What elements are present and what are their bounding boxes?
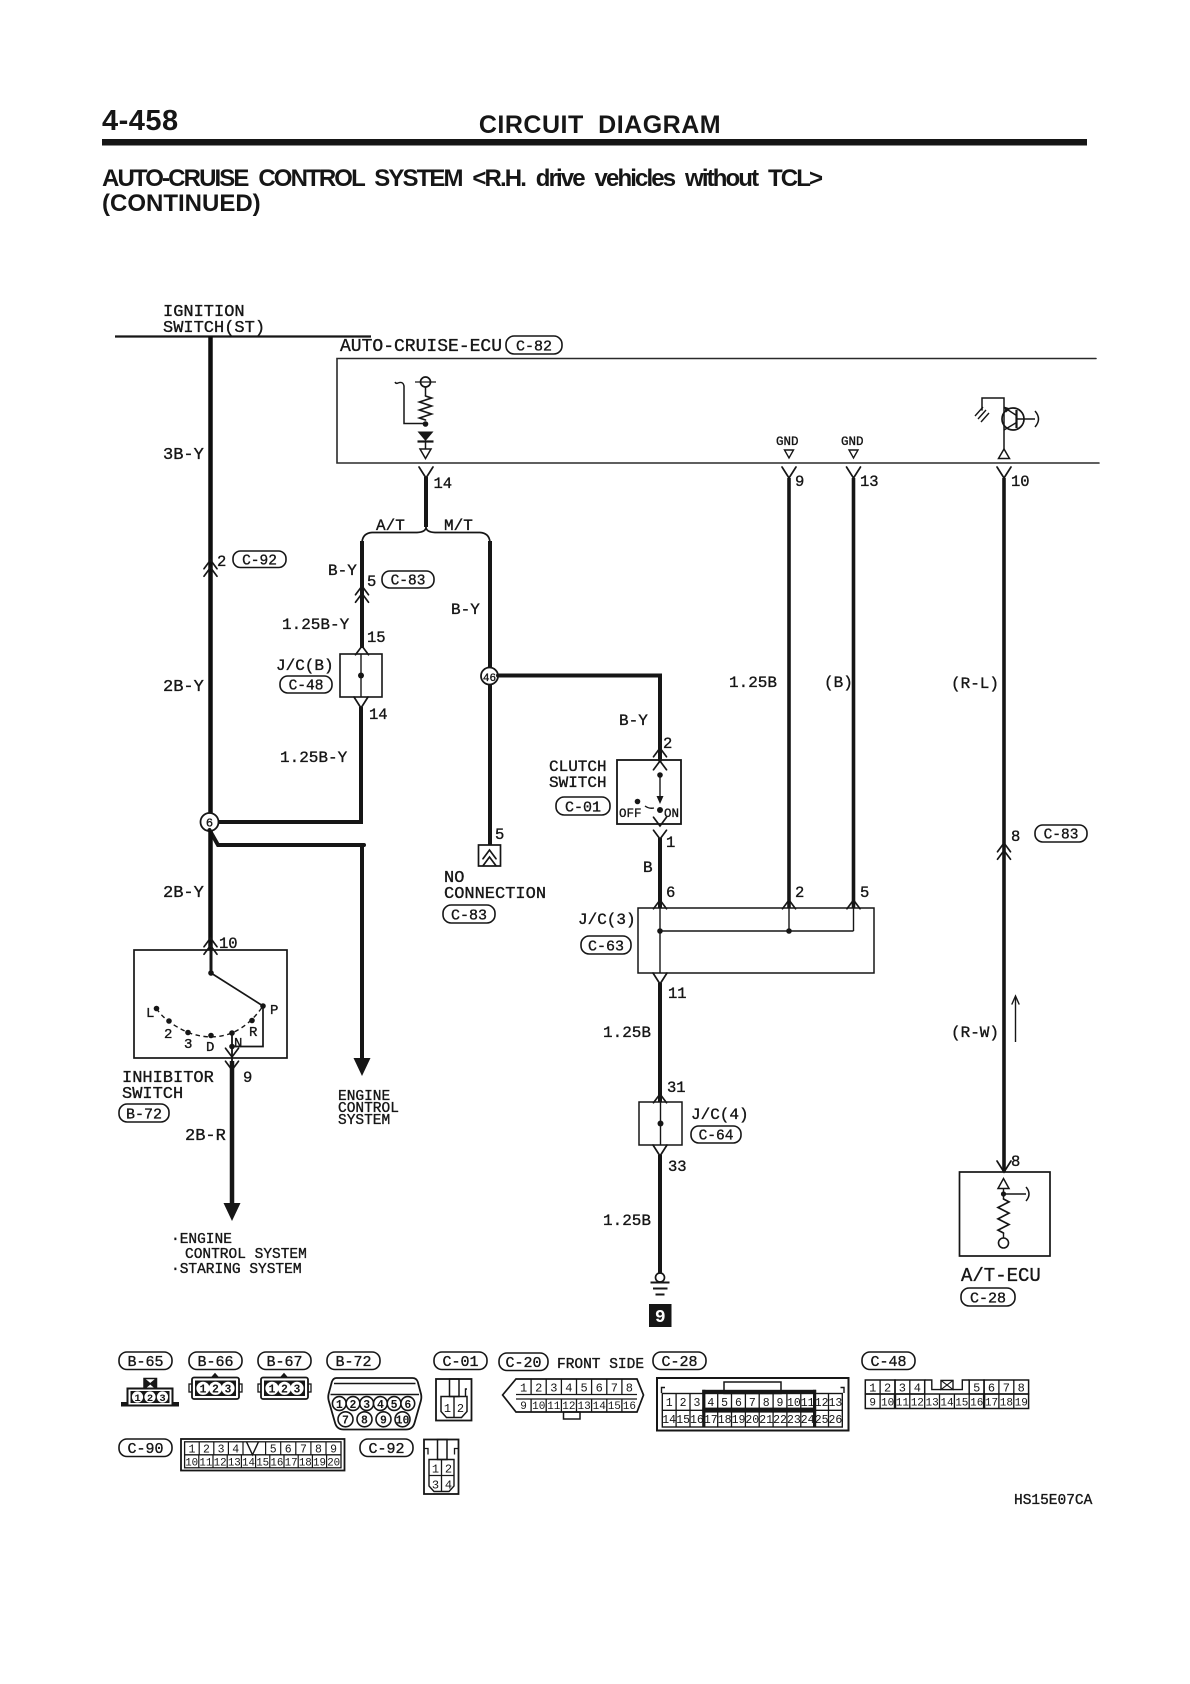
- svg-text:C-83: C-83: [1044, 828, 1079, 844]
- svg-text:8: 8: [361, 1415, 368, 1428]
- svg-text:18: 18: [1000, 1398, 1013, 1410]
- svg-text:B-72: B-72: [126, 1106, 162, 1123]
- svg-text:19: 19: [313, 1457, 326, 1469]
- svg-text:5: 5: [721, 1397, 728, 1410]
- svg-text:C-90: C-90: [127, 1441, 163, 1458]
- svg-text:8: 8: [763, 1397, 770, 1410]
- node 46 circle: [481, 668, 498, 685]
- connector ref C-63 capsule: [581, 936, 631, 954]
- J/C(B) exit pin 14 connector Y: [354, 697, 368, 708]
- transistor Q circle: [1002, 408, 1024, 430]
- engine control system branch wire: [360, 843, 364, 1060]
- svg-text:14: 14: [369, 706, 388, 724]
- connector ref C-48 capsule: [280, 676, 332, 693]
- wire B-Y M/T branch: [488, 541, 492, 668]
- svg-text:6: 6: [988, 1381, 995, 1395]
- connector ref B-66 capsule: [189, 1352, 242, 1370]
- svg-text:2: 2: [795, 884, 804, 902]
- GND pin triangle right: [849, 450, 858, 458]
- svg-text:B-66: B-66: [197, 1354, 233, 1371]
- clutch switch OFF contact dot: [635, 799, 641, 805]
- wire below node 46 to no-connection: [488, 684, 492, 845]
- svg-text:A/T-ECU: A/T-ECU: [961, 1265, 1041, 1287]
- svg-text:19: 19: [1015, 1398, 1028, 1410]
- wire B-Y A/T branch upper: [360, 541, 364, 600]
- svg-text:3: 3: [294, 1384, 301, 1397]
- svg-text:C-01: C-01: [442, 1354, 478, 1371]
- svg-text:C-82: C-82: [516, 338, 552, 355]
- svg-text:A/T: A/T: [376, 517, 405, 535]
- svg-text:2: 2: [147, 1393, 153, 1405]
- connector ref C-20 capsule: [499, 1353, 548, 1371]
- inhibitor switch wiper arm: [211, 973, 263, 1006]
- svg-text:18: 18: [299, 1457, 312, 1469]
- connector ref C-83 capsule right: [1035, 825, 1087, 842]
- svg-text:10: 10: [396, 1415, 410, 1428]
- svg-text:15: 15: [955, 1398, 968, 1410]
- svg-text:CONTROL SYSTEM: CONTROL SYSTEM: [185, 1247, 307, 1263]
- svg-text:1: 1: [432, 1463, 439, 1477]
- svg-text:15: 15: [676, 1414, 690, 1427]
- svg-text:20: 20: [745, 1414, 759, 1427]
- svg-text:10: 10: [532, 1401, 545, 1413]
- svg-text:7: 7: [300, 1443, 307, 1456]
- svg-text:1.25B: 1.25B: [603, 1024, 651, 1042]
- svg-text:3B-Y: 3B-Y: [163, 446, 204, 465]
- body ground symbol: [656, 1273, 665, 1282]
- svg-text:12: 12: [562, 1401, 575, 1413]
- svg-text:10: 10: [1011, 473, 1030, 491]
- svg-text:7: 7: [611, 1382, 618, 1396]
- svg-text:13: 13: [828, 1397, 842, 1410]
- junction block J/C(B) entry chevron: [356, 646, 369, 655]
- connector ref C-01 capsule bottom: [434, 1352, 487, 1370]
- svg-text:11: 11: [199, 1457, 212, 1469]
- svg-text:7: 7: [1003, 1381, 1010, 1395]
- svg-text:AUTO-CRUISE-ECU: AUTO-CRUISE-ECU: [340, 337, 502, 357]
- svg-text:11: 11: [896, 1398, 910, 1410]
- svg-text:(R-W): (R-W): [951, 1024, 999, 1042]
- clutch switch moving contact arrow: [657, 796, 664, 804]
- svg-text:23: 23: [787, 1414, 801, 1427]
- J/C(4) entry chevron: [654, 1094, 667, 1103]
- inhibitor switch contact arc dashed: [157, 1006, 264, 1037]
- connector C-20 drawing: [503, 1379, 644, 1419]
- svg-text:14: 14: [242, 1457, 255, 1469]
- svg-text:B-65: B-65: [127, 1354, 163, 1371]
- svg-text:5: 5: [973, 1381, 980, 1395]
- svg-text:16: 16: [270, 1457, 283, 1469]
- svg-text:C-28: C-28: [970, 1290, 1006, 1307]
- svg-text:2: 2: [663, 735, 672, 753]
- wire 3B-Y ignition switch vertical: [208, 336, 213, 822]
- svg-text:14: 14: [662, 1414, 676, 1427]
- clutch switch throw dash: [645, 806, 654, 808]
- wire (B) ground pin 13: [852, 478, 856, 908]
- svg-text:2B-Y: 2B-Y: [163, 678, 204, 697]
- svg-text:SWITCH(ST): SWITCH(ST): [163, 319, 265, 338]
- inhibitor exit chevrons: [226, 1048, 239, 1057]
- connector C-92 drawing: [424, 1440, 459, 1495]
- inhibitor switch common dot: [208, 970, 214, 976]
- inhibitor contact dot N: [229, 1030, 235, 1036]
- connector C-48 drawing: [865, 1380, 1028, 1410]
- J/C(3) exit pin 11 connector Y: [653, 973, 667, 984]
- svg-text:P: P: [270, 1003, 278, 1019]
- svg-text:1: 1: [444, 1402, 451, 1416]
- clutch switch internal wire: [659, 775, 661, 797]
- connector C-90 drawing: [181, 1439, 345, 1471]
- svg-text:16: 16: [970, 1398, 983, 1410]
- wire B clutch to J/C(3): [658, 838, 662, 908]
- svg-text:2: 2: [217, 553, 226, 571]
- svg-text:8: 8: [626, 1382, 633, 1396]
- svg-text:10: 10: [881, 1398, 894, 1410]
- ground reference 9 black box: [649, 1304, 672, 1327]
- svg-text:2: 2: [212, 1384, 219, 1397]
- connector C-01 drawing: [436, 1379, 472, 1421]
- J/C(3) junction dots: [657, 928, 663, 934]
- svg-text:1.25B: 1.25B: [729, 674, 777, 692]
- junction block J/C(B) C-48 box: [340, 654, 382, 697]
- connector pass-through double chevron right wire: [998, 843, 1011, 852]
- svg-text:2: 2: [445, 1463, 452, 1477]
- svg-text:11: 11: [668, 985, 687, 1003]
- svg-text:17: 17: [285, 1457, 298, 1469]
- ECU pin 10 male terminal triangle: [999, 449, 1010, 459]
- svg-text:10: 10: [787, 1397, 801, 1410]
- svg-text:6: 6: [596, 1382, 603, 1396]
- J/C(4) internal wire: [660, 1102, 662, 1145]
- J/C(3) internal vertical wire pin6: [659, 908, 661, 973]
- ECU internal wire: [425, 387, 427, 396]
- svg-text:1: 1: [869, 1381, 876, 1395]
- svg-text:1: 1: [336, 1399, 343, 1412]
- svg-text:12: 12: [815, 1397, 829, 1410]
- svg-text:2: 2: [535, 1382, 542, 1396]
- connector ref C-83 capsule no-connection: [443, 905, 495, 923]
- svg-text:L: L: [146, 1006, 154, 1022]
- svg-text:1: 1: [269, 1384, 276, 1397]
- clutch switch entry chevrons: [654, 748, 667, 757]
- transistor emitter diagonal: [1004, 423, 1017, 431]
- node 6 circle: [201, 813, 219, 831]
- svg-text:14: 14: [593, 1401, 607, 1413]
- A/T-ECU internal resistor: [998, 1199, 1009, 1233]
- header rule: [102, 139, 1087, 146]
- svg-text:15: 15: [256, 1457, 269, 1469]
- svg-text:(CONTINUED): (CONTINUED): [102, 190, 261, 217]
- svg-text:3: 3: [550, 1382, 557, 1396]
- svg-text:13: 13: [925, 1398, 938, 1410]
- svg-text:3: 3: [899, 1381, 906, 1395]
- svg-text:17: 17: [704, 1414, 718, 1427]
- svg-text:C-83: C-83: [391, 574, 426, 590]
- svg-text:(B): (B): [824, 674, 853, 692]
- svg-text:22: 22: [773, 1414, 787, 1427]
- svg-text:5: 5: [495, 826, 504, 844]
- J/C(4) internal junction dot: [658, 1121, 664, 1127]
- connector ref C-90 capsule: [119, 1439, 172, 1457]
- svg-text:3: 3: [432, 1479, 439, 1493]
- svg-text:18: 18: [718, 1414, 732, 1427]
- svg-text:5: 5: [860, 884, 869, 902]
- svg-text:B-72: B-72: [335, 1354, 371, 1371]
- inhibitor contact dot 3: [185, 1030, 191, 1036]
- A/T M/T split brace: [362, 527, 490, 542]
- ECU internal diode: [418, 432, 434, 442]
- svg-text:CIRCUIT DIAGRAM: CIRCUIT DIAGRAM: [479, 111, 721, 139]
- svg-text:26: 26: [828, 1414, 842, 1427]
- svg-text:5: 5: [270, 1443, 277, 1456]
- clutch switch ON contact dot: [657, 807, 663, 813]
- connector ref C-48 capsule bottom: [862, 1352, 915, 1370]
- svg-text:4: 4: [707, 1397, 714, 1410]
- svg-text:8: 8: [1011, 828, 1020, 846]
- svg-text:9: 9: [655, 1308, 666, 1328]
- svg-text:3: 3: [225, 1384, 232, 1397]
- svg-text:14: 14: [434, 475, 453, 493]
- svg-text:11: 11: [547, 1401, 561, 1413]
- ECU pin 14 male terminal triangle: [420, 449, 431, 459]
- svg-text:8: 8: [1011, 1153, 1020, 1171]
- ignition switch bus bar: [115, 335, 371, 337]
- inhibitor P contact wire: [232, 1006, 263, 1047]
- connector ref B-65 capsule: [119, 1352, 172, 1370]
- wire from ECU pin 14: [424, 477, 428, 527]
- svg-text:2B-Y: 2B-Y: [163, 884, 204, 903]
- svg-text:5: 5: [391, 1399, 398, 1412]
- ECU internal branch wire to driver: [404, 386, 426, 424]
- svg-text:25: 25: [815, 1414, 829, 1427]
- wire 1.25B-Y upper: [360, 600, 364, 648]
- wire 1.25B-Y lower: [359, 707, 363, 822]
- direction arrow up: [1015, 997, 1017, 1042]
- transistor collector diagonal with arrow: [1005, 408, 1017, 416]
- svg-text:3: 3: [159, 1393, 165, 1405]
- A/T-ECU entry chevron: [997, 1161, 1011, 1172]
- inhibitor contact dot R: [249, 1018, 255, 1024]
- svg-text:B-Y: B-Y: [451, 601, 480, 619]
- svg-text:11: 11: [801, 1397, 815, 1410]
- svg-text:SYSTEM: SYSTEM: [338, 1113, 390, 1129]
- svg-text:6: 6: [285, 1443, 292, 1456]
- junction block J/C(3) C-63 box: [638, 908, 874, 973]
- svg-text:13: 13: [577, 1401, 590, 1413]
- inhibitor N output wire: [231, 1033, 233, 1070]
- svg-text:1.25B-Y: 1.25B-Y: [280, 749, 348, 767]
- wire 1.25B between J/C(3) and J/C(4): [658, 983, 662, 1102]
- svg-text:4: 4: [377, 1399, 384, 1412]
- svg-text:GND: GND: [776, 435, 799, 449]
- svg-text:B-67: B-67: [266, 1354, 302, 1371]
- svg-text:1: 1: [134, 1393, 140, 1405]
- J/C(3) internal vertical wire pin5: [853, 908, 855, 931]
- svg-text:1: 1: [200, 1384, 207, 1397]
- svg-text:C-20: C-20: [505, 1355, 541, 1372]
- A/T-ECU internal wire: [1003, 1189, 1005, 1200]
- svg-text:19: 19: [732, 1414, 746, 1427]
- wire 1.25B ground pin 9: [787, 478, 791, 908]
- svg-text:2B-R: 2B-R: [185, 1127, 226, 1146]
- svg-text:C-64: C-64: [699, 1129, 734, 1145]
- svg-text:12: 12: [214, 1457, 227, 1469]
- svg-text:C-48: C-48: [289, 679, 324, 695]
- engine control system arrowhead bottom left: [224, 1203, 241, 1221]
- svg-text:4: 4: [232, 1443, 239, 1456]
- connector pass-through double chevron inhibitor entry: [204, 938, 217, 947]
- svg-text:12: 12: [911, 1398, 924, 1410]
- engine control system arrowhead: [354, 1058, 371, 1076]
- svg-text:13: 13: [228, 1457, 241, 1469]
- svg-text:9: 9: [520, 1401, 527, 1413]
- svg-text:AUTO-CRUISE CONTROL SYSTEM <R.: AUTO-CRUISE CONTROL SYSTEM <R.H. drive v…: [102, 165, 823, 192]
- ECU internal terminal circle: [421, 377, 431, 387]
- svg-text:8: 8: [1018, 1381, 1025, 1395]
- svg-text:3: 3: [218, 1443, 225, 1456]
- svg-text:14: 14: [940, 1398, 954, 1410]
- svg-text:R: R: [249, 1025, 258, 1041]
- svg-text:15: 15: [367, 629, 386, 647]
- connector pass-through C-92 double chevron: [204, 560, 217, 569]
- connector C-28 drawing: [657, 1378, 849, 1431]
- svg-text:C-48: C-48: [870, 1354, 906, 1371]
- J/C(3) entry chevrons: [654, 900, 667, 909]
- svg-text:HS15E07CA: HS15E07CA: [1014, 1493, 1093, 1509]
- svg-text:J/C(B): J/C(B): [276, 657, 334, 675]
- svg-text:13: 13: [860, 473, 879, 491]
- auto-cruise ECU box outline: [337, 359, 1099, 464]
- svg-text:17: 17: [985, 1398, 998, 1410]
- wire horizontal from node 6 to A/T wire: [210, 820, 364, 824]
- svg-text:9: 9: [380, 1415, 387, 1428]
- wire from node 6 down to engine control system branch: [210, 830, 365, 845]
- ECU internal resistor: [420, 396, 432, 420]
- svg-text:9: 9: [777, 1397, 784, 1410]
- J/C(B) internal wire: [360, 654, 362, 697]
- svg-text:16: 16: [690, 1414, 704, 1427]
- connector ref C-92 capsule bottom: [360, 1439, 413, 1457]
- inhibitor contact dot 2: [166, 1018, 172, 1024]
- svg-text:2: 2: [164, 1027, 172, 1043]
- svg-text:·ENGINE: ·ENGINE: [171, 1232, 232, 1248]
- connector B-66 drawing: [189, 1374, 242, 1400]
- connector B-67 drawing: [258, 1374, 311, 1400]
- wire 2B-R: [230, 1061, 235, 1205]
- J/C(3) internal vertical wire pin2: [788, 908, 790, 931]
- svg-text:10: 10: [185, 1457, 198, 1469]
- svg-text:SWITCH: SWITCH: [122, 1085, 183, 1104]
- svg-text:7: 7: [749, 1397, 756, 1410]
- svg-text:46: 46: [483, 673, 496, 685]
- inhibitor switch internal entry wire: [210, 950, 213, 974]
- connector ref C-82 capsule: [506, 336, 562, 354]
- svg-text:C-92: C-92: [242, 553, 277, 569]
- svg-text:31: 31: [667, 1079, 686, 1097]
- svg-text:·STARING SYSTEM: ·STARING SYSTEM: [171, 1262, 302, 1278]
- svg-text:9: 9: [795, 473, 804, 491]
- svg-text:5: 5: [580, 1382, 587, 1396]
- svg-text:C-28: C-28: [661, 1354, 697, 1371]
- connector pass-through C-83 double chevron: [356, 586, 369, 595]
- svg-text:C-83: C-83: [451, 907, 487, 924]
- connector ref C-92 capsule: [233, 551, 286, 568]
- GND pin triangle left: [785, 450, 794, 458]
- svg-text:6: 6: [666, 884, 675, 902]
- svg-text:2: 2: [281, 1384, 288, 1397]
- ECU pin 10 connector Y: [997, 467, 1011, 478]
- svg-text:1: 1: [666, 834, 675, 852]
- connector ref C-28 capsule: [961, 1288, 1015, 1306]
- connector ref B-72 capsule bottom: [327, 1352, 380, 1370]
- inhibitor switch B-72 box: [134, 950, 287, 1058]
- svg-text:J/C(4): J/C(4): [691, 1106, 749, 1124]
- svg-text:3: 3: [363, 1399, 370, 1412]
- svg-text:2: 2: [203, 1443, 210, 1456]
- svg-text:2: 2: [457, 1402, 464, 1416]
- svg-text:FRONT SIDE: FRONT SIDE: [557, 1357, 644, 1373]
- svg-text:7: 7: [342, 1415, 349, 1428]
- svg-text:1.25B-Y: 1.25B-Y: [282, 616, 350, 634]
- svg-text:20: 20: [327, 1457, 340, 1469]
- svg-text:B: B: [643, 859, 653, 877]
- J/C(4) exit pin 33 connector Y: [653, 1145, 667, 1156]
- svg-text:24: 24: [801, 1414, 815, 1427]
- svg-text:2: 2: [680, 1397, 687, 1410]
- svg-text:3: 3: [184, 1037, 192, 1053]
- connector B-65 drawing: [122, 1379, 179, 1407]
- connector B-72 drawing: [328, 1378, 421, 1430]
- svg-text:GND: GND: [841, 435, 864, 449]
- svg-text:2: 2: [884, 1381, 891, 1395]
- svg-text:C-01: C-01: [565, 799, 601, 816]
- svg-text:3: 3: [693, 1397, 700, 1410]
- svg-text:C-92: C-92: [368, 1441, 404, 1458]
- A/T-ECU internal junction dot: [1001, 1191, 1006, 1196]
- svg-text:9: 9: [243, 1069, 252, 1087]
- svg-text:8: 8: [315, 1443, 322, 1456]
- wire (R-L) from ECU pin 10: [1002, 478, 1006, 1172]
- A/T-ECU internal branch with curl: [1004, 1193, 1027, 1195]
- svg-text:33: 33: [668, 1158, 687, 1176]
- connector ref C-28 capsule bottom: [653, 1352, 706, 1370]
- svg-text:16: 16: [623, 1401, 636, 1413]
- svg-text:OFF: OFF: [619, 807, 642, 821]
- svg-text:9: 9: [869, 1398, 876, 1410]
- svg-text:21: 21: [759, 1414, 773, 1427]
- svg-text:B-Y: B-Y: [328, 562, 357, 580]
- connector ref B-72 capsule: [119, 1104, 169, 1122]
- A/T-ECU internal pin triangle: [998, 1179, 1009, 1189]
- svg-text:SWITCH: SWITCH: [549, 774, 607, 792]
- inhibitor contact dot L: [154, 1006, 160, 1012]
- svg-text:15: 15: [608, 1401, 621, 1413]
- A/T-ECU internal terminal circle: [1003, 1233, 1005, 1238]
- wire 2B-Y lower segment: [208, 831, 213, 950]
- inhibitor contact dot P: [260, 1003, 266, 1009]
- svg-text:D: D: [206, 1040, 214, 1056]
- connector ref C-01 capsule: [556, 797, 610, 815]
- svg-text:(R-L): (R-L): [951, 675, 999, 693]
- no connection terminal box: [479, 845, 501, 866]
- A/T-ECU C-28 box: [960, 1172, 1051, 1256]
- svg-text:9: 9: [330, 1443, 337, 1456]
- ECU internal junction dot: [423, 421, 429, 427]
- ECU internal transistor collector wire and ground: [982, 398, 1004, 449]
- connector ref C-64 capsule: [691, 1126, 741, 1143]
- svg-text:4: 4: [914, 1381, 921, 1395]
- clutch switch C-01 box: [617, 760, 681, 824]
